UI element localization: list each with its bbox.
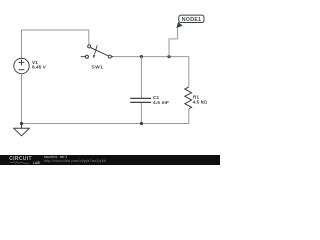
capacitor C1 <box>130 98 151 102</box>
svg-text:CIRCUIT: CIRCUIT <box>9 156 32 162</box>
watermark logo CIRCUIT LAB <box>9 156 40 165</box>
svg-text:SW1: SW1 <box>92 64 104 70</box>
watermark logo squiggle <box>10 161 30 163</box>
junction at C1 top <box>140 55 143 58</box>
ground <box>14 124 30 136</box>
switch SW1 <box>81 45 114 58</box>
wire: C1 bottom lead <box>140 103 142 124</box>
wire: bottom rail <box>22 109 189 124</box>
wire: NODE1 branch <box>169 28 178 57</box>
svg-text:4.5 kΩ: 4.5 kΩ <box>193 99 208 105</box>
wire: V1 top up and across to switch <box>22 30 89 58</box>
resistor R1 <box>185 87 192 109</box>
watermark band <box>0 155 220 165</box>
junction at NODE1 tap <box>167 55 170 58</box>
wire: switch to right corner and down to R1 <box>113 57 189 87</box>
wire: V1 bottom down to ground rail <box>21 74 23 124</box>
junction at ground <box>20 122 23 125</box>
svg-text:http://circuitlab.com/c6yyk7wo: http://circuitlab.com/c6yyk7wo2j45b <box>44 159 106 163</box>
wire: C1 top lead <box>140 57 142 98</box>
svg-text:4.5 mF: 4.5 mF <box>153 100 169 106</box>
svg-text:NODE1: NODE1 <box>182 17 202 23</box>
svg-text:6.45 V: 6.45 V <box>32 65 47 71</box>
junction at C1 bottom <box>140 122 143 125</box>
voltage source V1 <box>14 58 29 73</box>
svg-text:LAB: LAB <box>33 161 41 165</box>
net flag NODE1 <box>176 15 204 28</box>
